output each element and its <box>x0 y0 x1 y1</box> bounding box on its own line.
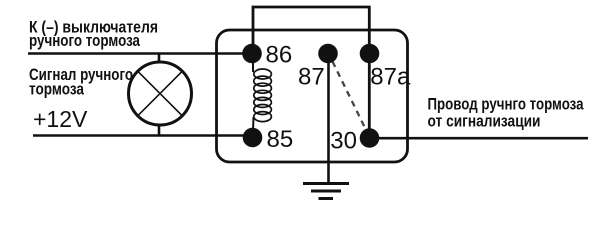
relay K1 body <box>217 30 408 162</box>
pin 87 terminal dot <box>318 44 338 64</box>
pin 87a terminal dot <box>360 44 380 64</box>
svg-text:86: 86 <box>266 41 293 68</box>
svg-text:Провод ручнго тормоза: Провод ручнго тормоза <box>428 96 585 114</box>
pin 86 terminal dot <box>242 44 262 64</box>
ground symbol <box>303 184 349 199</box>
wire: +12V supply wire (left bottom) <box>33 134 252 137</box>
wire: pin 30 to alarm (right) <box>369 137 588 140</box>
svg-text:85: 85 <box>267 126 294 153</box>
svg-text:30: 30 <box>330 127 357 154</box>
svg-text:ручного тормоза: ручного тормоза <box>29 32 141 50</box>
pin 85 terminal dot <box>243 128 263 148</box>
svg-text:от сигнализации: от сигнализации <box>428 112 541 130</box>
wire: jumper 86 to 87a over relay top, down to 30 <box>253 7 369 138</box>
svg-text:87a: 87a <box>370 64 411 91</box>
wire: handbrake switch wire (left top) <box>28 52 252 55</box>
relay armature contact (dashed) 87 to 30 <box>333 62 367 131</box>
relay coil winding <box>253 58 271 131</box>
svg-text:+12V: +12V <box>33 106 88 132</box>
wire: pin 87 to ground <box>327 54 330 184</box>
lamp HL1 (handbrake signal lamp) <box>129 54 192 136</box>
svg-text:тормоза: тормоза <box>29 81 85 99</box>
svg-text:87: 87 <box>298 63 325 90</box>
pin 30 terminal dot <box>360 128 380 148</box>
